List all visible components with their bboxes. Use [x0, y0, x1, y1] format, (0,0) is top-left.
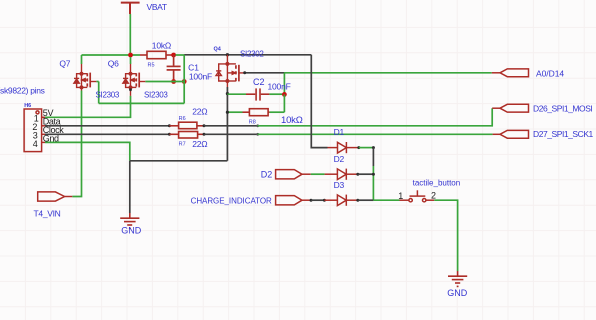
svg-text:CHARGE_INDICATOR: CHARGE_INDICATOR [191, 197, 272, 206]
junction dot R6 right [203, 124, 206, 127]
capacitor C2 [227, 88, 284, 100]
svg-text:R8: R8 [249, 119, 256, 125]
svg-text:D2: D2 [261, 169, 273, 179]
svg-text:GND: GND [447, 288, 468, 298]
wire A0 net [284, 72, 491, 74]
junction dot gate corner [182, 79, 187, 84]
transistor Q4 [216, 55, 245, 87]
wire top rail black [184, 54, 311, 56]
connector flag D2 [276, 170, 311, 179]
connector flag D26_SPI1_MOSI [492, 104, 528, 112]
wire rail to gate drop [176, 54, 185, 56]
svg-text:10kΩ: 10kΩ [281, 115, 303, 126]
wire D3 to bus [358, 199, 374, 201]
wire Clock to D27 [258, 133, 493, 135]
svg-text:Q4: Q4 [214, 47, 222, 53]
wire Clock [45, 133, 169, 135]
svg-text:SI2302: SI2302 [240, 50, 264, 59]
ground symbol right [448, 271, 467, 286]
transistor Q7 [74, 55, 96, 91]
wire Q6 drain to 5V [45, 96, 131, 117]
svg-text:GND: GND [121, 226, 142, 236]
svg-text:R5: R5 [148, 63, 155, 69]
wire Q4 source down [226, 87, 228, 161]
diode D1 [328, 142, 359, 153]
svg-text:2: 2 [431, 190, 436, 200]
junction dot Data left [168, 124, 171, 127]
svg-text:C2: C2 [253, 77, 265, 87]
svg-text:1: 1 [398, 191, 403, 201]
connector flag T4_VIN [38, 192, 73, 201]
diode D3 [324, 195, 357, 206]
resistor R8 [227, 109, 284, 116]
junction dot D3 anode right [323, 199, 326, 202]
svg-text:22Ω: 22Ω [192, 139, 207, 149]
junction dot D3 anode left [310, 199, 313, 202]
svg-text:R6: R6 [179, 116, 186, 122]
wire Q7 drain to T4_VIN [72, 91, 81, 197]
wire button to GND [434, 200, 457, 271]
svg-text:100nF: 100nF [189, 71, 212, 81]
svg-text:4: 4 [33, 139, 38, 149]
svg-text:SI2303: SI2303 [96, 91, 120, 100]
svg-text:H6: H6 [24, 103, 31, 109]
wire bus to button [373, 199, 399, 201]
wire VBAT vertical [129, 14, 131, 55]
svg-text:(sk9822) pins: (sk9822) pins [0, 85, 45, 95]
junction dot Data transition [256, 124, 259, 127]
diode D2 [325, 169, 358, 180]
junction dot C1 bottom [171, 79, 176, 84]
wire Q4 gate [245, 72, 285, 74]
junction dot Q6 drain [129, 88, 132, 91]
resistor R7 [169, 132, 204, 139]
svg-text:SI2303: SI2303 [144, 91, 168, 100]
svg-text:Q7: Q7 [59, 59, 70, 69]
wire A0 branch down [283, 73, 285, 95]
junction dot Q4 drain [226, 53, 229, 56]
capacitor C1 [167, 55, 181, 82]
wire VBAT rail [82, 54, 141, 56]
connector flag A0/D14 [492, 69, 529, 77]
wire Data [45, 125, 169, 127]
wire Data mid [204, 125, 258, 127]
junction dot Q4 gate [243, 71, 246, 74]
wire D2 to bus [358, 173, 374, 175]
ground symbol left [120, 213, 139, 228]
resistor R5 [140, 51, 174, 58]
junction dot D2 cathode [356, 173, 359, 176]
wire GND drop left [129, 161, 131, 213]
wire diode bus lower [372, 166, 374, 200]
svg-text:D26_SPI1_MOSI: D26_SPI1_MOSI [533, 103, 592, 113]
svg-text:Q6: Q6 [108, 59, 119, 69]
connector flag CHARGE_INDICATOR [276, 196, 310, 205]
svg-text:T4_VIN: T4_VIN [34, 208, 61, 218]
wire Clock mid [204, 133, 258, 135]
wire D3 anode [311, 199, 324, 201]
transistor Q6 [123, 57, 145, 96]
svg-text:D27_SPI1_SCK1: D27_SPI1_SCK1 [533, 129, 594, 139]
tactile button S1 [400, 190, 435, 202]
connector flag D27_SPI1_SCK1 [493, 130, 529, 138]
junction dot Q4 source [226, 92, 229, 95]
header H6 [24, 109, 45, 152]
junction dot bus top [372, 146, 375, 149]
svg-text:R7: R7 [179, 141, 186, 147]
wire D1 feed [311, 55, 327, 148]
junction dot D3 cathode [356, 199, 359, 202]
junction dot C2 right [282, 92, 287, 97]
junction dot Clock transition [256, 133, 259, 136]
junction dot VBAT rail [128, 53, 133, 58]
junction dot bus D2 [372, 173, 375, 176]
junction dot D1 cathode [357, 146, 360, 149]
svg-text:D1: D1 [334, 127, 345, 137]
svg-text:VBAT: VBAT [147, 2, 167, 12]
wire gate net [96, 55, 184, 103]
wire D2 anode [311, 173, 325, 175]
junction dot R7 right [203, 133, 206, 136]
svg-text:22Ω: 22Ω [192, 107, 207, 117]
junction dot R8 left [226, 111, 229, 114]
wire D1 to bus [359, 147, 374, 149]
svg-text:tactile_button: tactile_button [413, 179, 461, 188]
wire Data to D26 [258, 108, 493, 126]
svg-text:D2: D2 [334, 154, 345, 164]
wire Gnd header [45, 142, 130, 160]
wire diode bus upper [372, 148, 374, 166]
svg-text:D3: D3 [334, 180, 345, 190]
wire R8 to C2 dot [283, 94, 285, 112]
svg-text:A0/D14: A0/D14 [536, 69, 564, 79]
wire GND link [130, 160, 228, 162]
resistor R6 [169, 122, 204, 129]
junction dot Clock left [168, 133, 171, 136]
junction dot R5 right [171, 53, 176, 58]
svg-text:100nF: 100nF [268, 82, 291, 92]
power symbol VBAT [121, 3, 140, 14]
svg-text:10kΩ: 10kΩ [152, 41, 171, 51]
